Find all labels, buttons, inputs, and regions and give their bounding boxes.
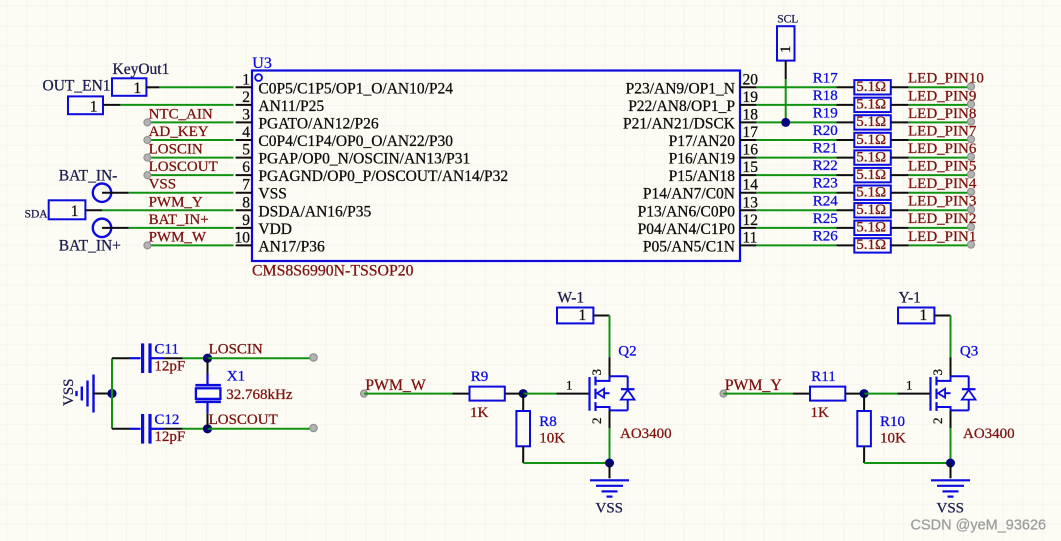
svg-text:5.1Ω: 5.1Ω xyxy=(856,114,886,130)
svg-text:1: 1 xyxy=(71,203,79,220)
svg-text:LED_PIN9: LED_PIN9 xyxy=(908,88,976,104)
svg-text:PGATO/AN12/P26: PGATO/AN12/P26 xyxy=(258,115,379,132)
svg-text:P21/AN21/DSCK: P21/AN21/DSCK xyxy=(623,115,736,132)
svg-text:AN17/P36: AN17/P36 xyxy=(258,238,325,255)
svg-text:PGAGND/OP0_P/OSCOUT/AN14/P32: PGAGND/OP0_P/OSCOUT/AN14/P32 xyxy=(258,168,508,185)
svg-text:12pF: 12pF xyxy=(154,359,185,375)
svg-text:LED_PIN6: LED_PIN6 xyxy=(908,141,977,157)
svg-text:VDD: VDD xyxy=(258,221,292,238)
svg-text:P04/AN4/C1P0: P04/AN4/C1P0 xyxy=(638,221,736,238)
svg-text:LED_PIN8: LED_PIN8 xyxy=(908,106,976,122)
svg-text:2: 2 xyxy=(242,89,250,106)
svg-text:1: 1 xyxy=(90,98,98,115)
svg-text:LOSCIN: LOSCIN xyxy=(209,342,263,358)
svg-text:P17/AN20: P17/AN20 xyxy=(669,133,736,150)
svg-text:10K: 10K xyxy=(539,430,565,446)
svg-text:R21: R21 xyxy=(813,141,838,157)
svg-text:BAT_IN+: BAT_IN+ xyxy=(59,238,121,255)
svg-text:LED_PIN4: LED_PIN4 xyxy=(908,176,977,192)
svg-text:5.1Ω: 5.1Ω xyxy=(856,79,886,95)
svg-text:5.1Ω: 5.1Ω xyxy=(856,149,886,165)
svg-text:C0P4/C1P4/OP0_O/AN22/P30: C0P4/C1P4/OP0_O/AN22/P30 xyxy=(258,133,453,150)
svg-text:LOSCOUT: LOSCOUT xyxy=(149,159,218,175)
svg-text:1: 1 xyxy=(242,71,250,88)
svg-text:LED_PIN2: LED_PIN2 xyxy=(908,211,976,227)
svg-text:P22/AN8/OP1_P: P22/AN8/OP1_P xyxy=(628,98,735,115)
svg-text:LED_PIN3: LED_PIN3 xyxy=(908,194,976,210)
svg-text:DSDA/AN16/P35: DSDA/AN16/P35 xyxy=(258,203,371,220)
svg-text:PWM_W: PWM_W xyxy=(149,229,207,245)
svg-text:LED_PIN10: LED_PIN10 xyxy=(908,71,984,87)
svg-text:VSS: VSS xyxy=(937,501,965,517)
svg-text:VSS: VSS xyxy=(258,186,286,203)
svg-text:BAT_IN+: BAT_IN+ xyxy=(149,212,209,228)
svg-text:6: 6 xyxy=(242,159,250,176)
svg-text:9: 9 xyxy=(242,212,250,229)
svg-text:SDA: SDA xyxy=(25,209,49,221)
svg-text:R23: R23 xyxy=(813,176,838,192)
svg-text:CMS8S6990N-TSSOP20: CMS8S6990N-TSSOP20 xyxy=(252,263,414,280)
svg-text:VSS: VSS xyxy=(149,177,177,193)
svg-text:AO3400: AO3400 xyxy=(620,426,672,442)
svg-text:20: 20 xyxy=(743,71,759,88)
svg-text:R17: R17 xyxy=(813,70,839,86)
svg-text:PWM_Y: PWM_Y xyxy=(149,194,203,210)
svg-text:7: 7 xyxy=(242,177,250,194)
svg-text:2: 2 xyxy=(589,418,604,425)
svg-text:AO3400: AO3400 xyxy=(963,426,1015,442)
svg-text:3: 3 xyxy=(242,106,250,123)
svg-text:14: 14 xyxy=(743,177,759,194)
svg-text:P14/AN7/C0N: P14/AN7/C0N xyxy=(643,186,735,203)
svg-text:R11: R11 xyxy=(811,369,835,385)
svg-text:PWM_W: PWM_W xyxy=(365,377,426,394)
svg-text:1: 1 xyxy=(920,307,928,324)
svg-text:1: 1 xyxy=(579,307,587,324)
svg-text:8: 8 xyxy=(242,194,250,211)
svg-text:1: 1 xyxy=(906,378,913,393)
svg-text:18: 18 xyxy=(743,106,759,123)
svg-text:LED_PIN7: LED_PIN7 xyxy=(908,123,977,139)
svg-text:19: 19 xyxy=(743,89,759,106)
svg-text:12pF: 12pF xyxy=(154,429,185,445)
svg-text:4: 4 xyxy=(242,124,250,141)
svg-text:5.1Ω: 5.1Ω xyxy=(856,97,886,113)
svg-text:5: 5 xyxy=(242,142,250,159)
svg-text:C0P5/C1P5/OP1_O/AN10/P24: C0P5/C1P5/OP1_O/AN10/P24 xyxy=(258,80,453,97)
svg-text:1: 1 xyxy=(566,378,573,393)
svg-text:P05/AN5/C1N: P05/AN5/C1N xyxy=(643,238,735,255)
svg-text:LOSCOUT: LOSCOUT xyxy=(209,412,278,428)
svg-text:P16/AN19: P16/AN19 xyxy=(669,151,736,168)
svg-text:16: 16 xyxy=(743,142,759,159)
svg-text:R19: R19 xyxy=(813,105,838,121)
svg-text:AN11/P25: AN11/P25 xyxy=(258,98,324,115)
svg-text:VSS: VSS xyxy=(596,501,624,517)
svg-text:R22: R22 xyxy=(813,158,838,174)
svg-text:R20: R20 xyxy=(813,123,838,139)
svg-text:Q3: Q3 xyxy=(960,343,978,359)
svg-text:R25: R25 xyxy=(813,211,838,227)
svg-text:R8: R8 xyxy=(539,414,557,430)
svg-text:32.768kHz: 32.768kHz xyxy=(226,387,293,403)
svg-text:AD_KEY: AD_KEY xyxy=(149,124,209,140)
svg-text:11: 11 xyxy=(743,229,758,246)
svg-text:5.1Ω: 5.1Ω xyxy=(856,185,886,201)
svg-text:R10: R10 xyxy=(880,414,905,430)
svg-text:3: 3 xyxy=(930,369,945,376)
svg-text:R9: R9 xyxy=(471,369,489,385)
svg-text:SCL: SCL xyxy=(777,14,798,26)
svg-text:Q2: Q2 xyxy=(618,343,636,359)
svg-text:R24: R24 xyxy=(813,193,839,209)
svg-text:10K: 10K xyxy=(880,430,906,446)
svg-text:5.1Ω: 5.1Ω xyxy=(856,167,886,183)
svg-text:5.1Ω: 5.1Ω xyxy=(856,220,886,236)
svg-text:3: 3 xyxy=(589,369,604,376)
svg-text:15: 15 xyxy=(743,159,759,176)
svg-text:P15/AN18: P15/AN18 xyxy=(669,168,736,185)
svg-text:BAT_IN-: BAT_IN- xyxy=(59,167,118,184)
svg-text:LED_PIN5: LED_PIN5 xyxy=(908,159,976,175)
svg-text:5.1Ω: 5.1Ω xyxy=(856,202,886,218)
svg-text:2: 2 xyxy=(930,418,945,425)
svg-text:C11: C11 xyxy=(154,341,178,357)
svg-text:1: 1 xyxy=(134,80,142,97)
svg-text:LOSCIN: LOSCIN xyxy=(149,142,203,158)
svg-text:12: 12 xyxy=(743,212,759,229)
svg-text:KeyOut1: KeyOut1 xyxy=(113,61,170,78)
svg-text:LED_PIN1: LED_PIN1 xyxy=(908,229,976,245)
svg-text:R18: R18 xyxy=(813,88,838,104)
svg-text:PGAP/OP0_N/OSCIN/AN13/P31: PGAP/OP0_N/OSCIN/AN13/P31 xyxy=(258,151,470,168)
svg-text:Y-1: Y-1 xyxy=(899,290,921,307)
svg-text:U3: U3 xyxy=(252,55,272,72)
svg-text:C12: C12 xyxy=(154,412,179,428)
svg-text:10: 10 xyxy=(235,229,251,246)
svg-text:PWM_Y: PWM_Y xyxy=(725,377,782,394)
svg-text:P23/AN9/OP1_N: P23/AN9/OP1_N xyxy=(626,80,735,97)
svg-text:R26: R26 xyxy=(813,228,839,244)
svg-text:VSS: VSS xyxy=(61,378,77,406)
svg-text:1: 1 xyxy=(778,46,794,54)
svg-text:P13/AN6/C0P0: P13/AN6/C0P0 xyxy=(638,203,736,220)
svg-text:5.1Ω: 5.1Ω xyxy=(856,132,886,148)
svg-text:W-1: W-1 xyxy=(558,290,585,307)
svg-text:X1: X1 xyxy=(227,369,245,385)
svg-text:CSDN @yeM_93626: CSDN @yeM_93626 xyxy=(911,518,1047,534)
svg-text:1K: 1K xyxy=(811,405,830,421)
svg-text:NTC_AIN: NTC_AIN xyxy=(149,106,213,122)
svg-text:17: 17 xyxy=(743,124,759,141)
svg-text:OUT_EN1: OUT_EN1 xyxy=(43,78,111,95)
svg-text:13: 13 xyxy=(743,194,759,211)
svg-text:1K: 1K xyxy=(470,405,489,421)
svg-text:5.1Ω: 5.1Ω xyxy=(856,237,886,253)
